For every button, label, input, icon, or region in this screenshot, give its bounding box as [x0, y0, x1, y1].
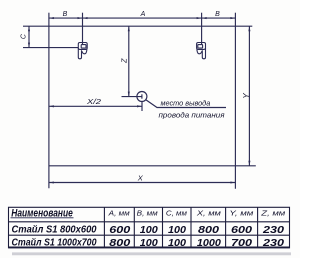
dimension line Y right [248, 26, 250, 166]
arrow C bottom [28, 43, 30, 48]
dimension line Z [128, 26, 130, 96]
svg-text:600: 600 [231, 225, 252, 236]
circle center mark [141, 94, 143, 98]
outlet circle [137, 92, 147, 102]
svg-text:230: 230 [262, 238, 285, 249]
table bottom border thick [9, 246, 290, 248]
svg-text:Y, мм: Y, мм [229, 209, 254, 218]
table header name underline [11, 217, 74, 219]
dimension line X bottom [49, 182, 236, 184]
arrow C top [28, 26, 30, 31]
bracket left [78, 43, 87, 59]
arrow X right [230, 181, 235, 183]
svg-text:600: 600 [109, 225, 130, 236]
svg-text:X/2: X/2 [86, 97, 102, 106]
svg-text:Y: Y [242, 93, 251, 99]
svg-text:800: 800 [198, 225, 219, 236]
svg-text:C: C [21, 33, 28, 39]
dimension line X/2 [49, 105, 142, 107]
svg-text:B: B [215, 11, 220, 18]
arrow A left [83, 17, 88, 19]
svg-text:Стайл S1 1000х700: Стайл S1 1000х700 [12, 238, 97, 249]
arrow Z top [128, 26, 130, 31]
svg-text:100: 100 [168, 238, 186, 249]
svg-text:Z, мм: Z, мм [260, 209, 286, 218]
arrow X/2 right [137, 105, 142, 107]
svg-text:B: B [63, 11, 68, 18]
svg-text:230: 230 [262, 225, 285, 236]
extension line Z bottom [122, 96, 143, 98]
bracket right [197, 43, 206, 59]
leader line to note [146, 100, 226, 108]
dimension line C [28, 26, 30, 47]
panel outline right edge [234, 26, 236, 189]
dimension line A B top [49, 17, 236, 19]
arrow A right [197, 17, 202, 19]
svg-text:700: 700 [231, 238, 252, 249]
svg-text:X: X [137, 173, 144, 182]
svg-text:В, мм: В, мм [137, 209, 159, 218]
arrow B2 left inner [202, 17, 207, 19]
svg-text:100: 100 [140, 225, 158, 236]
svg-text:X, мм: X, мм [196, 209, 222, 218]
svg-text:Стайл S1 800х600: Стайл S1 800х600 [12, 225, 97, 236]
svg-text:С, мм: С, мм [166, 209, 188, 218]
svg-text:провода питания: провода питания [159, 111, 225, 120]
svg-text:800: 800 [109, 238, 130, 249]
extension line bracket left [82, 13, 84, 45]
svg-text:100: 100 [168, 225, 186, 236]
svg-text:1000: 1000 [197, 238, 221, 249]
extension line C bottom [23, 47, 78, 49]
panel outline left edge [48, 26, 50, 188]
extension line left top [48, 13, 50, 27]
scan shadow under table [12, 252, 291, 255]
arrow B right inner [78, 17, 83, 19]
arrow Y top [248, 26, 250, 31]
arrow X/2 left [49, 105, 54, 107]
svg-text:место вывода: место вывода [161, 98, 211, 107]
table grid [9, 207, 290, 248]
arrow Z bottom [128, 92, 130, 97]
panel outline top edge [23, 25, 252, 27]
arrow X left [49, 181, 54, 183]
svg-text:Наименование: Наименование [11, 207, 73, 219]
svg-text:А, мм: А, мм [108, 209, 131, 218]
svg-text:100: 100 [140, 238, 158, 249]
panel outline bottom edge [49, 165, 256, 167]
svg-text:A: A [140, 11, 146, 18]
arrow Y bottom [248, 161, 250, 166]
arrow B2 right [230, 17, 235, 19]
svg-text:Z: Z [119, 58, 128, 64]
arrow B left [49, 17, 54, 19]
extension line right top [234, 13, 236, 27]
extension line below circle [141, 102, 143, 111]
extension line bracket right [201, 13, 203, 45]
